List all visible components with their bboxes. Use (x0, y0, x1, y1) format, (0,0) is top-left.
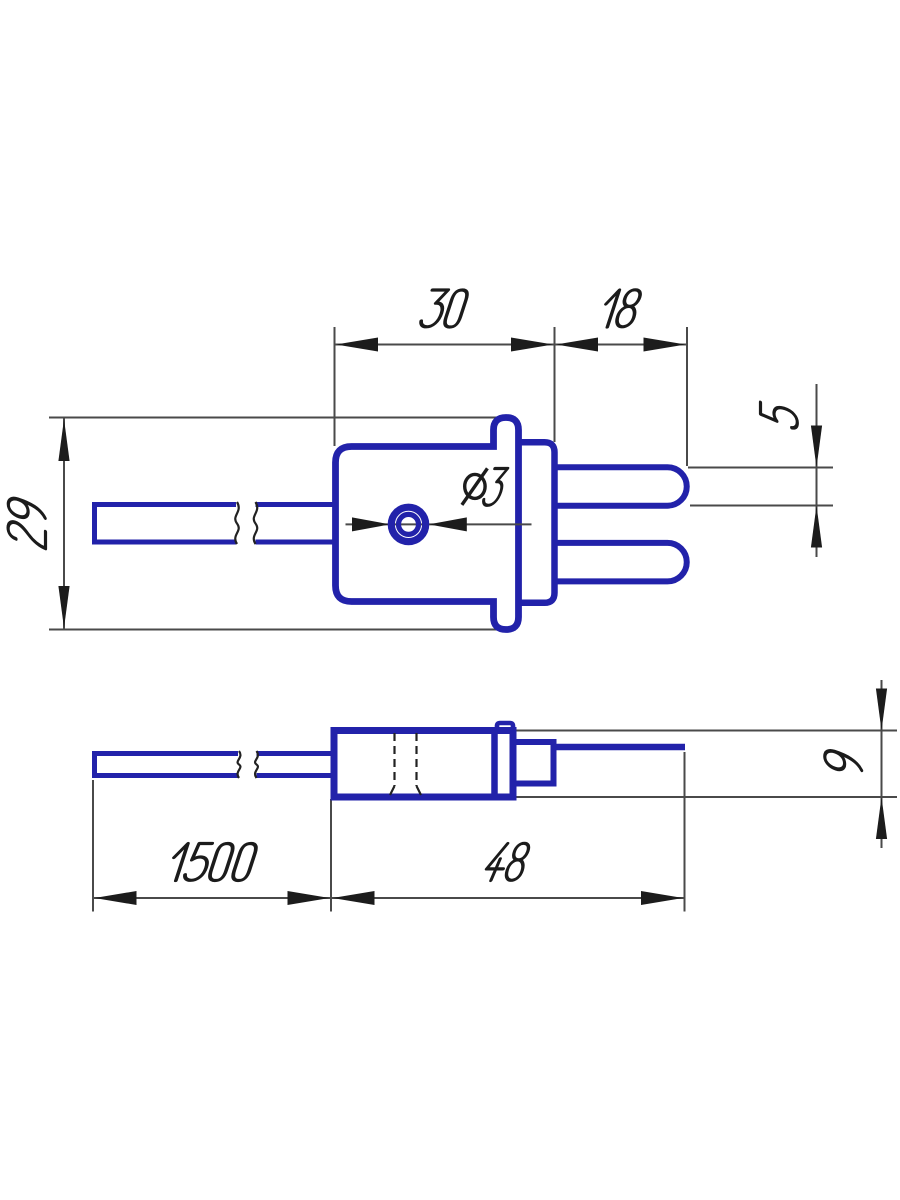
dimension line 30/18 (335, 344, 688, 346)
arrow 30 left (336, 338, 378, 352)
5 bottom extension (690, 505, 833, 507)
hole inner circle (399, 514, 419, 534)
arrow d3 right (429, 517, 467, 531)
29 dimension line (63, 418, 65, 630)
break wave left (top view) (235, 502, 238, 544)
break wave left (side view) (238, 751, 241, 778)
break wave right (side view) (255, 751, 258, 778)
hidden hole dashed right (415, 733, 417, 786)
connector body merged with flange collar (top view) (336, 418, 519, 630)
hidden hole dashed left (393, 733, 395, 786)
dim text 30 (419, 290, 469, 327)
arrow 1500 left (95, 891, 137, 905)
dim text 9 (rotated) (825, 748, 862, 777)
dim text 5 (rotated) (761, 401, 798, 430)
48 middle extension (330, 799, 332, 912)
cable right segment (top view) (256, 505, 341, 543)
extension line left of 30 (334, 327, 336, 446)
hidden hole flare right (417, 786, 422, 795)
dim symbol phi slash (462, 468, 488, 505)
arrow 29 up (58, 419, 69, 461)
dim text 3 (482, 469, 509, 506)
cable right segment (side view) (257, 754, 341, 776)
extension line between 30 and 18 (554, 327, 556, 442)
29 bottom extension (49, 629, 516, 631)
arrow 30 right (511, 338, 553, 352)
5 dimension line (816, 384, 818, 557)
5 top extension (688, 467, 833, 469)
dim text 29 (rotated) (8, 496, 45, 548)
arrow 9 upper (876, 689, 887, 731)
extension line right of 18 (686, 327, 688, 466)
small rect section (side view) (516, 742, 554, 784)
dim text 48 (483, 843, 531, 880)
arrow d3 left (352, 517, 390, 531)
body (side view) (334, 731, 513, 798)
29 top extension (49, 417, 516, 419)
arrow 1500 right (288, 891, 330, 905)
arrow 5 lower (811, 506, 822, 548)
pin 2 (top view) (556, 543, 687, 582)
dim text 18 (599, 290, 643, 327)
1500 left extension (92, 780, 94, 912)
arrow 48 right (641, 891, 683, 905)
arrow 9 lower (876, 797, 887, 839)
flange band line (side view) (491, 731, 498, 798)
48 right extension (684, 752, 686, 912)
9 top extension (513, 730, 897, 732)
hole centerline (346, 523, 532, 525)
tab on top (side view) (497, 723, 513, 731)
dim symbol phi circle (465, 474, 485, 498)
barrel section (top view) (519, 442, 555, 603)
cable left segment (top view) (95, 505, 237, 543)
arrow 5 upper (811, 426, 822, 468)
arrow 18 right (644, 338, 686, 352)
arrow 29 down (58, 586, 69, 628)
cable left segment (side view) (95, 754, 239, 776)
pin 1 (top view) (556, 467, 687, 506)
arrow 48 left (333, 891, 375, 905)
dimension line 1500/48 (93, 897, 685, 899)
arrow 18 left (556, 338, 598, 352)
pin (side view) (553, 744, 685, 751)
dim text 1500 (167, 844, 259, 881)
hidden hole flare left (390, 786, 395, 795)
hole outer circle (391, 507, 425, 541)
break wave right (top view) (254, 502, 257, 544)
9 dimension line (881, 680, 883, 848)
9 bottom extension (513, 796, 897, 798)
